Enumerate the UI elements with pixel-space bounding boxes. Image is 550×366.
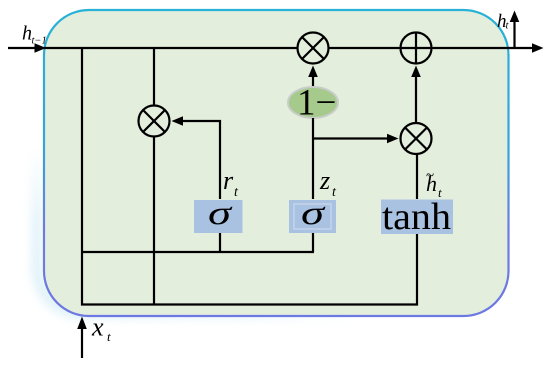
svg-text:h: h — [22, 23, 32, 45]
svg-text:σ: σ — [208, 195, 233, 232]
label h~_t — [426, 168, 442, 200]
multiply node reset gate — [139, 106, 170, 137]
wire: tanh up to candidate multiply — [416, 154, 418, 199]
wire: left vertical line A — [81, 48, 83, 306]
label z_t — [319, 166, 337, 200]
wire: h_t up arrow — [513, 21, 515, 48]
wire: horizontal bus A — [81, 251, 314, 253]
arrowhead x_t — [77, 317, 87, 330]
wire: ellipse down to sigma z with branch — [312, 118, 314, 199]
wire: horizontal bus B — [81, 303, 418, 305]
wire: top line from border to multiply node — [44, 47, 297, 49]
wire: sigma z down to bus A — [312, 233, 314, 252]
label r_t — [223, 166, 239, 200]
svg-text:h: h — [426, 171, 437, 196]
arrowhead into reset multiply — [172, 116, 184, 126]
sigma box z gate — [289, 200, 336, 233]
wire: top line from add node out of box — [432, 47, 534, 49]
svg-text:z: z — [319, 166, 330, 195]
wire: sigma r down to bus A — [219, 233, 221, 252]
wire: candidate multiply up to add node — [415, 77, 417, 123]
svg-text:t−1: t−1 — [32, 36, 47, 47]
one minus ellipse — [288, 83, 338, 124]
label x_t — [91, 313, 111, 345]
wire: top line between multiply and add nodes — [329, 47, 400, 49]
wire: vertical line B upper — [153, 48, 155, 106]
svg-text:t: t — [506, 21, 510, 32]
label h_(t-1) — [22, 23, 47, 47]
arrowhead output right — [532, 43, 544, 53]
svg-text:t: t — [107, 329, 111, 344]
wire: tanh down to bus B — [416, 234, 418, 306]
arrowhead into add node — [411, 66, 421, 78]
multiply node on top line — [298, 33, 329, 64]
sigma box r gate — [194, 200, 243, 233]
candidate multiply node — [401, 123, 432, 154]
svg-text:σ: σ — [301, 195, 326, 232]
wire: branch right to candidate multiply — [313, 137, 387, 139]
cell body glow — [37, 12, 502, 313]
wire: from sigma r up and left to reset multiply — [183, 121, 220, 199]
wire: x_t input arrow — [81, 329, 83, 358]
svg-text:tanh: tanh — [382, 196, 451, 238]
arrowhead into top multiply — [308, 66, 318, 78]
arrowhead h_t up — [510, 11, 520, 23]
arrowhead into box — [35, 43, 47, 53]
add node on top line — [401, 33, 432, 64]
inner highlight frame z gate — [294, 204, 331, 229]
wire: ellipse to top multiply — [312, 77, 314, 87]
arrowhead into candidate multiply — [387, 134, 399, 144]
svg-text:r: r — [223, 166, 234, 195]
svg-text:1−: 1− — [297, 83, 336, 124]
wire: h(t-1) input line into box — [8, 47, 35, 49]
svg-text:x: x — [91, 313, 104, 342]
label h_t — [497, 11, 510, 32]
cell body (rounded rectangle) — [44, 10, 509, 316]
wire: vertical line B lower — [153, 137, 155, 306]
tanh box — [381, 200, 453, 235]
